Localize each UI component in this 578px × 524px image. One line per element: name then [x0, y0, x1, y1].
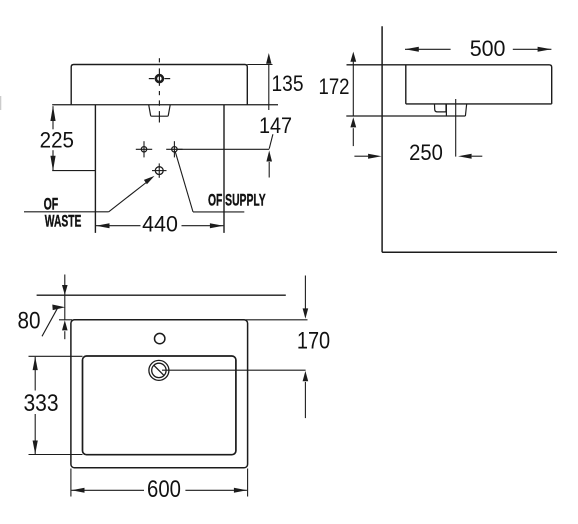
floor line (side view)	[382, 251, 557, 253]
side drain cup	[435, 105, 447, 112]
plan top edge extension right	[246, 319, 308, 321]
front vertical centerline	[158, 58, 160, 122]
svg-text:147: 147	[259, 113, 292, 138]
waste drain (plan)	[149, 360, 169, 380]
svg-text:OF SUPPLY: OF SUPPLY	[208, 190, 266, 209]
svg-text:440: 440	[142, 211, 178, 236]
svg-text:333: 333	[23, 390, 58, 417]
svg-text:WASTE: WASTE	[45, 211, 82, 230]
faucet hole (plan)	[155, 333, 165, 343]
svg-text:135: 135	[272, 71, 304, 96]
supply hole right (front)	[166, 141, 182, 157]
front rim bottom line	[52, 104, 278, 106]
leader for 80	[42, 305, 65, 337]
waste hole (front)	[152, 163, 167, 177]
dimension 172	[319, 52, 357, 147]
faucet hole (front)	[149, 75, 170, 82]
front pedestal left line	[94, 105, 96, 233]
dimension 600	[71, 469, 248, 503]
dimension 333	[23, 356, 82, 454]
wall line (plan view)	[37, 294, 286, 296]
svg-text:80: 80	[18, 308, 41, 335]
dimension 80	[18, 275, 68, 340]
supply hole left (front)	[136, 141, 152, 157]
svg-text:250: 250	[409, 140, 443, 165]
dimension 500	[405, 36, 551, 61]
side drain box	[446, 105, 466, 117]
front overflow notch	[149, 105, 171, 116]
supply leader and label	[175, 152, 266, 212]
drain center extension line (plan)	[162, 369, 306, 371]
plan outer rim rect	[71, 320, 248, 468]
dimension 250	[354, 140, 482, 165]
side basin outline	[347, 65, 552, 104]
svg-text:225: 225	[40, 128, 74, 153]
svg-text:172: 172	[319, 74, 350, 99]
scan edge artifact at left border	[0, 96, 2, 110]
side shelf line	[346, 115, 465, 117]
dimension 440	[96, 211, 223, 236]
svg-text:500: 500	[470, 36, 506, 61]
dimension 147	[177, 113, 292, 178]
waste leader and label	[24, 176, 155, 230]
side drain centerline	[455, 99, 457, 157]
front view rim outline	[71, 65, 247, 105]
plan top edge extension left	[59, 319, 72, 321]
svg-text:170: 170	[297, 328, 330, 355]
svg-text:600: 600	[147, 476, 181, 503]
wall line (side view)	[381, 26, 383, 252]
dimension 225	[40, 106, 96, 171]
dimension 135	[247, 53, 303, 110]
plan inner basin rect	[83, 356, 236, 455]
front pedestal right line	[223, 105, 225, 233]
dimension 170	[297, 276, 330, 419]
